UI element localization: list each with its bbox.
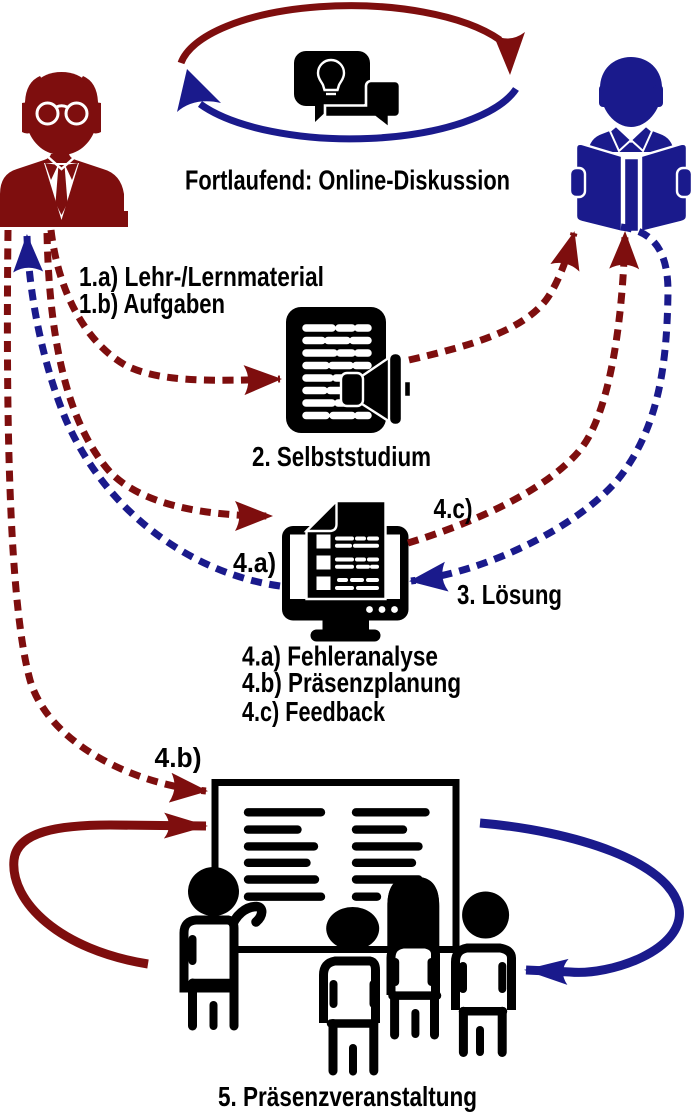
svg-text:3. Lösung: 3. Lösung <box>457 579 562 610</box>
svg-text:Fortlaufend: Online-Diskussion: Fortlaufend: Online-Diskussion <box>185 165 510 196</box>
svg-text:4.a): 4.a) <box>233 547 276 578</box>
svg-text:4.b): 4.b) <box>155 742 202 773</box>
svg-text:1.b) Aufgaben: 1.b) Aufgaben <box>79 288 225 319</box>
svg-text:5. Präsenzveranstaltung: 5. Präsenzveranstaltung <box>218 1081 477 1112</box>
svg-text:2. Selbststudium: 2. Selbststudium <box>252 441 431 472</box>
svg-text:4.b) Präsenzplanung: 4.b) Präsenzplanung <box>242 667 461 698</box>
svg-text:4.c): 4.c) <box>434 493 473 524</box>
svg-text:4.c) Feedback: 4.c) Feedback <box>242 696 385 727</box>
